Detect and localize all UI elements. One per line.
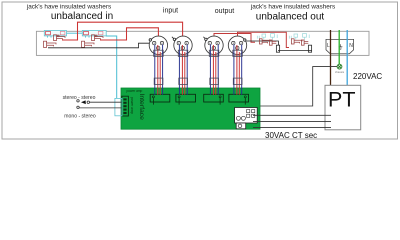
pcb connector CN3 (204, 94, 224, 104)
output jack J8 (maroon) (301, 40, 308, 45)
svg-text:N: N (349, 43, 353, 49)
svg-text:input: input (163, 8, 178, 15)
black ground bus (input jacks to XLR1 lug) (48, 43, 150, 48)
svg-text:power amp: power amp (127, 89, 143, 93)
mains green (earth) wire (338, 30, 340, 64)
secondary wires pcb to PT (253, 115, 331, 127)
output RCA jack board 4 teal marks (289, 34, 309, 40)
mains blue (neutral) wire (346, 30, 348, 85)
output jack J7 (maroon) (291, 39, 302, 44)
svg-text:output: output (215, 8, 235, 15)
black ground wire XLR4 lug to out jacks (247, 41, 279, 45)
heatshrink sleeves below XLRs (154, 50, 243, 84)
svg-text:mono - stereo: mono - stereo (64, 113, 96, 119)
output jack bushing (board 3) (276, 45, 279, 52)
input jack J4 lower (maroon) (82, 41, 95, 47)
chassis rear panel (36, 31, 369, 55)
XLR connector U4 (output R) (228, 36, 246, 54)
XLR connector U3 (output L) (203, 36, 223, 54)
cyan outline around CN5 (115, 98, 122, 115)
power transformer PT box (325, 85, 361, 130)
svg-text:unbalanced in: unbalanced in (51, 11, 113, 22)
svg-text:Interface: Interface (138, 94, 145, 121)
input jack J2 lower (maroon) (44, 41, 57, 47)
pcb connector CN4 (229, 94, 249, 104)
svg-text:stereo - stereo: stereo - stereo (63, 95, 96, 101)
wire stubs over pcb into connectors (155, 88, 242, 95)
black ground bus output jacks (278, 49, 312, 51)
cyan link wire between boards (67, 32, 83, 34)
pcb connector CN1 (150, 94, 170, 104)
mains brown (live) wire (330, 30, 332, 85)
mode switch SW1 (77, 100, 90, 109)
output jack J5 (maroon) (259, 39, 270, 44)
pcb connector CN7 (236, 123, 246, 129)
output jack bushing (board 4) (308, 45, 311, 52)
svg-text:unbalanced out: unbalanced out (256, 12, 325, 23)
chassis ground wire to pcb (260, 67, 337, 106)
svg-text:power amp: power amp (130, 97, 134, 114)
input RCA jack board 1 (cyan pcb) (44, 31, 66, 38)
switch wires to pcb (79, 102, 122, 108)
svg-text:30VAC CT sec: 30VAC CT sec (265, 131, 317, 140)
border frame (2, 2, 398, 139)
svg-text:PT: PT (328, 88, 355, 112)
input RCA jack board 2 (cyan pcb) (82, 31, 106, 38)
output RCA jack board 3 teal marks (257, 34, 277, 40)
pcb bottom-right connector CN6 (235, 108, 258, 124)
red center pins through XLRs (158, 45, 237, 96)
svg-text:jack's have insulated washers: jack's have insulated washers (250, 4, 335, 11)
input jack J3 upper (maroon) (92, 35, 104, 41)
interface PCB (green) (121, 88, 260, 129)
XLR connector U1 (input L) (149, 36, 167, 54)
pcb connector CN2 (176, 94, 196, 104)
svg-text:jack's have insulated washers: jack's have insulated washers (26, 4, 111, 11)
XLR connector U2 (input R) (172, 36, 192, 54)
chassis ground symbol (337, 64, 342, 69)
output jack J6 (maroon) (269, 40, 276, 45)
blue wires from XLR pins down (155, 45, 242, 96)
red signal wire R: jack board2 to XLR1 (100, 28, 158, 50)
input jack J1 upper (maroon) (54, 35, 66, 41)
IEC mains inlet (326, 39, 354, 53)
pcb left connector CN5 (122, 96, 129, 116)
svg-text:L: L (327, 43, 330, 49)
red signal wire: XLR4 to out jack board2 (238, 32, 290, 50)
cyan wire down to interface pcb (106, 36, 117, 98)
red signal wire: XLR3 to out jack board1 (214, 34, 255, 51)
svg-text:220VAC: 220VAC (353, 72, 382, 81)
svg-text:chassis: chassis (335, 70, 345, 74)
red signal wire L: jack board1 to XLR2 (62, 22, 183, 50)
